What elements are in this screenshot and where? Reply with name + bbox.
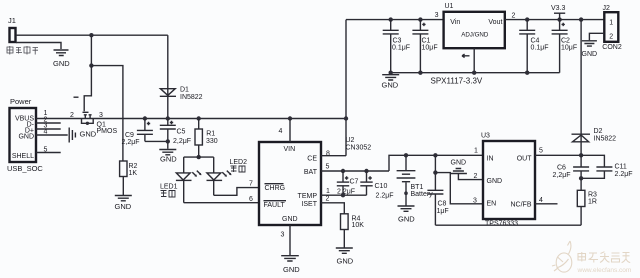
- ground (R4): [336, 230, 354, 266]
- node D2 top: [579, 17, 583, 21]
- wire GND return rail: [435, 224, 581, 226]
- resistor R2: [120, 161, 138, 177]
- connector J1: [8, 16, 16, 42]
- ground (U2): [281, 256, 300, 274]
- wire EN connection: [435, 173, 483, 204]
- node C3 top: [389, 17, 393, 21]
- IC U3 TPS76333 box: [481, 133, 535, 228]
- ground (J1): [53, 50, 70, 68]
- svg-text:C6: C6: [557, 165, 566, 172]
- svg-text:4: 4: [539, 197, 543, 204]
- svg-text:330: 330: [206, 138, 218, 145]
- wire gate jog to Q1 gate: [84, 66, 91, 112]
- node D1/C5 on rail: [166, 116, 170, 120]
- wire CE/U1 vertical riser: [345, 20, 347, 156]
- node C1 top: [418, 17, 422, 21]
- diode D2: [572, 20, 617, 156]
- capacitor C7: [337, 169, 359, 196]
- wire U1 Vin line: [346, 19, 444, 21]
- svg-text:5: 5: [326, 164, 330, 171]
- svg-text:IN: IN: [487, 156, 494, 163]
- svg-text:1: 1: [326, 188, 330, 195]
- pin 5 OUT stub: [535, 154, 581, 156]
- svg-text:GND: GND: [115, 202, 132, 211]
- svg-text:2,2μF: 2,2μF: [553, 172, 571, 179]
- svg-text:C11: C11: [615, 164, 627, 171]
- svg-text:GND: GND: [18, 134, 34, 141]
- pin 3 GND stub: [289, 225, 291, 255]
- svg-text:GND: GND: [382, 81, 399, 90]
- capacitor C2: [552, 17, 578, 72]
- capacitor C3: [383, 20, 410, 73]
- svg-text:TPS76333: TPS76333: [485, 220, 518, 227]
- node rail top junction: [344, 116, 348, 120]
- wire J1 top to D1 riser: [16, 34, 168, 36]
- svg-text:2.2μF: 2.2μF: [376, 193, 394, 200]
- svg-text:TEMP: TEMP: [298, 193, 318, 200]
- svg-text:R3: R3: [588, 192, 597, 199]
- pin 8 CE stub: [321, 155, 346, 157]
- wire LED top bar: [184, 156, 214, 158]
- pin 4 VIN stub: [289, 119, 291, 143]
- svg-text:R2: R2: [129, 163, 138, 170]
- svg-text:IN5822: IN5822: [180, 94, 203, 101]
- svg-text:Power: Power: [10, 97, 32, 106]
- ground (R2): [115, 177, 132, 212]
- svg-text:C7: C7: [350, 179, 359, 186]
- svg-text:CHRG: CHRG: [265, 185, 286, 192]
- node: gate branch junction: [89, 63, 93, 67]
- node U2 VIN on rail: [288, 116, 292, 120]
- svg-text:OUT: OUT: [517, 156, 533, 163]
- svg-text:CN3052: CN3052: [346, 145, 372, 152]
- LED LED2: [207, 157, 248, 195]
- svg-text:IN5822: IN5822: [594, 136, 617, 143]
- wire LED2 cathode to CHRG pin 7: [214, 188, 259, 196]
- power flag V3.3: [551, 5, 566, 20]
- node OUT/D2/C6: [579, 153, 583, 157]
- IC U2 CN3052 box: [259, 137, 371, 225]
- svg-text:8: 8: [326, 151, 330, 158]
- svg-text:BT1: BT1: [411, 184, 424, 191]
- svg-text:2,2μF: 2,2μF: [173, 138, 191, 145]
- svg-text:2,2μF: 2,2μF: [337, 189, 355, 196]
- svg-text:U3: U3: [481, 133, 490, 140]
- svg-text:GND: GND: [160, 155, 177, 164]
- svg-text:C10: C10: [375, 183, 388, 190]
- ground (BT1): [398, 206, 416, 224]
- wire C9 bottom to C5 bottom: [145, 140, 168, 142]
- svg-text:GND: GND: [283, 265, 300, 274]
- svg-text:U2: U2: [346, 137, 355, 144]
- svg-text:www.elecfans.com: www.elecfans.com: [577, 267, 632, 274]
- svg-text:USB_SOC: USB_SOC: [7, 164, 43, 173]
- svg-text:C9: C9: [125, 132, 134, 139]
- node R1/LED top: [197, 155, 201, 159]
- svg-text:2.2μF: 2.2μF: [615, 171, 633, 178]
- node C1 bottom on GND rail: [418, 71, 422, 75]
- svg-text:3: 3: [99, 112, 103, 119]
- resistor R4: [341, 214, 365, 230]
- svg-text:SPX1117-3.3V: SPX1117-3.3V: [431, 77, 483, 86]
- node C5/GND junction: [166, 139, 170, 143]
- svg-text:GND: GND: [53, 59, 70, 68]
- svg-text:R1: R1: [206, 131, 215, 138]
- svg-text:C8: C8: [438, 201, 447, 208]
- svg-text:7: 7: [249, 181, 253, 188]
- svg-text:2: 2: [609, 34, 613, 41]
- node C4 bottom on GND rail: [525, 71, 529, 75]
- LED LED1: [160, 157, 201, 203]
- svg-text:U1: U1: [445, 3, 454, 10]
- pin 4 NC/FB stub: [535, 203, 558, 205]
- resistor R1: [195, 119, 218, 158]
- node C9 on rail: [143, 116, 147, 120]
- svg-text:LED2: LED2: [230, 159, 248, 166]
- pin ADJ stub: [473, 48, 475, 72]
- svg-text:3: 3: [473, 198, 477, 205]
- svg-text:3: 3: [435, 12, 439, 19]
- regulator U1 SPX1117: [431, 3, 505, 86]
- pin 2 ISET stub to R4: [321, 203, 344, 214]
- svg-text:1: 1: [609, 19, 613, 26]
- svg-text:D1: D1: [180, 87, 189, 94]
- diode D1: [160, 35, 203, 118]
- svg-text:ISET: ISET: [301, 201, 317, 208]
- svg-text:C2: C2: [561, 38, 570, 45]
- capacitor C8: [427, 153, 448, 225]
- svg-text:10μF: 10μF: [422, 45, 438, 52]
- svg-text:1K: 1K: [129, 170, 138, 177]
- pin 1 TEMP stub: [321, 194, 367, 196]
- watermark logo: [552, 241, 572, 272]
- svg-text:GND: GND: [282, 216, 298, 223]
- svg-text:5: 5: [539, 148, 543, 155]
- connector J2: [602, 5, 622, 51]
- node R1 on rail: [197, 116, 201, 120]
- wire J1 bottom to GND: [16, 43, 61, 50]
- svg-text:C4: C4: [531, 38, 540, 45]
- ground (U3 pin2, inverted): [450, 160, 483, 180]
- svg-text:GND: GND: [398, 215, 415, 224]
- svg-text:GND: GND: [582, 51, 598, 58]
- svg-text:J1: J1: [8, 16, 16, 25]
- label 电源接头 (power connector): [7, 46, 38, 55]
- capacitor C4: [519, 17, 548, 72]
- svg-text:GND: GND: [80, 130, 97, 139]
- svg-text:2,2μF: 2,2μF: [122, 139, 140, 146]
- wire Vout line: [505, 19, 604, 21]
- svg-text:0.1μF: 0.1μF: [392, 45, 410, 52]
- capacitor C9: [122, 119, 153, 147]
- svg-text:C5: C5: [177, 129, 186, 136]
- wire BAT riser to U3 line: [389, 155, 483, 171]
- svg-text:CON2: CON2: [602, 44, 622, 51]
- svg-text:2: 2: [512, 12, 516, 19]
- svg-text:V3.3: V3.3: [551, 5, 566, 12]
- svg-text:1R: 1R: [588, 199, 597, 206]
- svg-text:GND: GND: [487, 178, 503, 185]
- watermark text 电子发烧友: [578, 252, 630, 263]
- svg-text:J2: J2: [603, 5, 611, 12]
- svg-text:Vout: Vout: [488, 19, 502, 26]
- svg-text:ADJ/GND: ADJ/GND: [461, 32, 489, 39]
- capacitor C5: [160, 119, 191, 146]
- svg-text:GND: GND: [337, 257, 354, 266]
- svg-text:2: 2: [70, 112, 74, 119]
- wire GND rail under U1: [391, 72, 560, 74]
- svg-text:NC/FB: NC/FB: [511, 202, 532, 209]
- battery BT1: [397, 153, 434, 205]
- pin 5 BAT stub: [321, 170, 389, 172]
- svg-text:4: 4: [279, 128, 283, 135]
- resistor R3: [577, 178, 597, 225]
- ground (J2): [582, 41, 598, 58]
- wire main 5V rail: [36, 118, 346, 120]
- svg-text:FAULT: FAULT: [264, 202, 286, 209]
- transistor Q1: [70, 97, 117, 135]
- node ADJ on GND rail: [472, 71, 476, 75]
- svg-text:10K: 10K: [352, 222, 365, 229]
- svg-text:1: 1: [474, 148, 478, 155]
- node EN tap on C8 riser: [433, 170, 437, 174]
- ground (U1 rail): [382, 75, 400, 90]
- svg-text:1μF: 1μF: [437, 208, 449, 215]
- svg-text:Vin: Vin: [450, 19, 460, 26]
- capacitor C10: [360, 169, 393, 200]
- svg-text:PMOS: PMOS: [97, 128, 118, 135]
- capacitor C6: [553, 155, 590, 179]
- capacitor C11: [581, 155, 632, 178]
- node: gate riser from J1 wire: [89, 33, 93, 37]
- wire gate branch to R2 (crosses rail, no dot): [91, 66, 123, 161]
- svg-text:C3: C3: [393, 38, 402, 45]
- svg-text:6: 6: [249, 196, 253, 203]
- capacitor C1: [412, 20, 437, 73]
- node C3 bottom on GND rail: [389, 71, 393, 75]
- svg-text:GND: GND: [451, 160, 467, 167]
- svg-text:EN: EN: [487, 201, 497, 208]
- connector USB_SOC: [7, 97, 43, 173]
- svg-text:2: 2: [474, 173, 478, 180]
- node C7 bottom on TEMP line: [341, 193, 345, 197]
- wire J2 pin2 to GND: [589, 33, 604, 40]
- svg-text:BAT: BAT: [304, 169, 318, 176]
- svg-text:SHELL: SHELL: [12, 153, 34, 160]
- svg-text:VIN: VIN: [284, 146, 296, 153]
- wire LED1 cathode to FAULT pin 6: [184, 202, 259, 204]
- ground (USB pin4, sideways): [69, 128, 97, 143]
- svg-text:D2: D2: [594, 128, 603, 135]
- svg-text:10μF: 10μF: [561, 45, 577, 52]
- svg-text:3: 3: [281, 232, 285, 239]
- svg-text:CE: CE: [307, 156, 317, 163]
- svg-text:C1: C1: [422, 38, 431, 45]
- svg-text:0.1μF: 0.1μF: [531, 45, 549, 52]
- ground (C9/C5): [159, 141, 177, 163]
- svg-text:2: 2: [326, 195, 330, 202]
- svg-text:LED1: LED1: [160, 184, 178, 191]
- node C6/C11/R3: [579, 176, 583, 180]
